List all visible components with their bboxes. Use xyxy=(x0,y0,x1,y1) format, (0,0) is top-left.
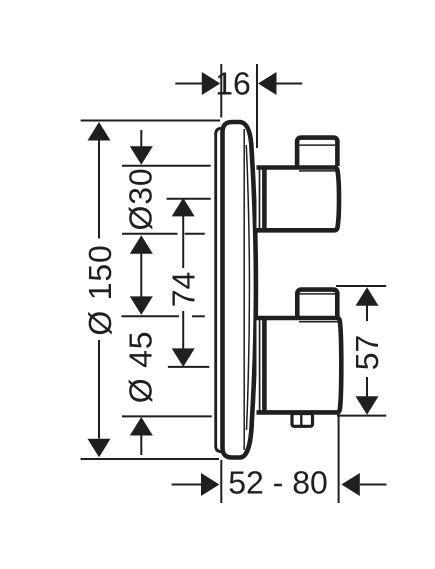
svg-text:74: 74 xyxy=(166,272,202,308)
svg-text:57: 57 xyxy=(349,335,385,371)
svg-text:52 - 80: 52 - 80 xyxy=(228,465,328,501)
svg-text:Ø 150: Ø 150 xyxy=(82,244,118,335)
svg-text:Ø30: Ø30 xyxy=(122,168,158,231)
svg-text:16: 16 xyxy=(215,66,251,102)
svg-text:Ø 45: Ø 45 xyxy=(123,331,159,404)
